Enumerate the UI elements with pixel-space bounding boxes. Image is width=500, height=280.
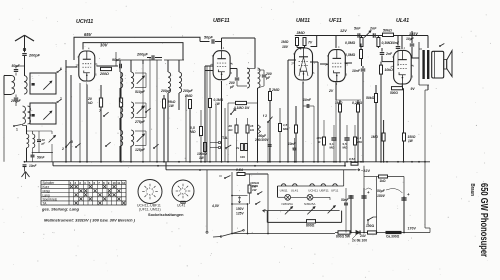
- svg-text:10: 10: [112, 181, 116, 185]
- svg-text:1: 1: [16, 128, 18, 132]
- svg-text:250/300V: 250/300V: [255, 138, 270, 142]
- svg-text:4: 4: [223, 46, 225, 50]
- svg-text:100: 100: [240, 155, 245, 159]
- svg-text:µF: µF: [265, 76, 271, 80]
- svg-text:6: 6: [95, 72, 97, 76]
- svg-text:275pF: 275pF: [134, 120, 146, 124]
- svg-text:7: 7: [98, 181, 100, 185]
- svg-text:µF: µF: [41, 142, 46, 146]
- svg-text:4,5V: 4,5V: [211, 204, 220, 208]
- svg-text:8: 8: [103, 181, 105, 185]
- svg-text:50kΩ: 50kΩ: [366, 96, 375, 100]
- svg-text:UF11: UF11: [331, 189, 339, 193]
- svg-text:1MΩ: 1MΩ: [281, 40, 289, 44]
- svg-text:12: 12: [122, 181, 126, 185]
- svg-text:10nF: 10nF: [391, 41, 400, 45]
- svg-text:6: 6: [313, 71, 315, 75]
- svg-text:kΩ: kΩ: [250, 128, 255, 132]
- svg-text:MΩ: MΩ: [283, 127, 288, 131]
- svg-text:200pF: 200pF: [28, 54, 41, 58]
- svg-text:Sockelschaltungen: Sockelschaltungen: [148, 212, 184, 217]
- svg-text:MΩ: MΩ: [190, 130, 196, 134]
- svg-text:50nF: 50nF: [341, 198, 349, 202]
- svg-text:−22V: −22V: [361, 169, 370, 173]
- svg-text:+: +: [407, 192, 410, 197]
- svg-text:UM11: UM11: [280, 189, 288, 193]
- svg-text:3: 3: [79, 181, 81, 185]
- svg-text:7: 7: [60, 97, 62, 101]
- svg-text:4: 4: [84, 181, 86, 185]
- svg-text:6: 6: [346, 73, 348, 77]
- svg-text:150V: 150V: [377, 194, 386, 198]
- svg-text:50µF: 50µF: [377, 189, 386, 193]
- svg-text:50pF: 50pF: [204, 36, 214, 40]
- svg-text:f 2: f 2: [263, 114, 267, 118]
- svg-text:Ca.390Ω: Ca.390Ω: [386, 235, 400, 239]
- svg-text:9: 9: [108, 181, 110, 185]
- svg-text:10nF: 10nF: [352, 69, 361, 73]
- svg-text:Nr8025A: Nr8025A: [282, 202, 293, 206]
- svg-text:0,1MΩ 1W: 0,1MΩ 1W: [234, 106, 250, 110]
- svg-text:10nF: 10nF: [288, 142, 296, 146]
- svg-text:2MΩ: 2MΩ: [184, 94, 193, 98]
- svg-text:2x 0E 100: 2x 0E 100: [352, 239, 367, 243]
- svg-text:2V: 2V: [328, 89, 334, 93]
- svg-text:UL41: UL41: [396, 18, 409, 24]
- svg-text:2MΩ: 2MΩ: [271, 88, 280, 92]
- svg-text:Nr8025A: Nr8025A: [304, 202, 315, 206]
- svg-text:UCH11: UCH11: [308, 189, 318, 193]
- svg-text:4: 4: [338, 45, 340, 49]
- svg-text:125pF: 125pF: [135, 148, 146, 152]
- svg-text:5: 5: [231, 62, 233, 66]
- svg-text:800Ω 5W: 800Ω 5W: [336, 235, 351, 239]
- svg-text:500Ω: 500Ω: [390, 91, 398, 95]
- svg-text:50nF: 50nF: [37, 156, 45, 160]
- svg-text:4: 4: [141, 105, 143, 109]
- svg-text:0,5MΩ: 0,5MΩ: [345, 53, 356, 57]
- svg-text:Meßinstrument: 333Ω/V ( 300 bz: Meßinstrument: 333Ω/V ( 300 bzw. 30V Ber…: [44, 218, 136, 223]
- svg-text:155V: 155V: [409, 32, 418, 36]
- svg-text:12V: 12V: [340, 29, 347, 33]
- svg-text:11: 11: [117, 181, 120, 185]
- svg-text:kΩ: kΩ: [88, 101, 93, 105]
- svg-text:10nF: 10nF: [29, 164, 37, 168]
- svg-text:10nF: 10nF: [303, 98, 312, 102]
- svg-text:2nF: 2nF: [369, 27, 377, 31]
- svg-text:24V: 24V: [360, 234, 367, 238]
- svg-text:50kΩ: 50kΩ: [383, 29, 392, 33]
- svg-text:800Ω: 800Ω: [306, 223, 315, 227]
- svg-text:1W: 1W: [169, 104, 175, 108]
- svg-text:4: 4: [88, 47, 90, 51]
- svg-text:UL41: UL41: [177, 204, 185, 208]
- svg-text:200µF: 200µF: [160, 89, 172, 93]
- svg-text:Braun: Braun: [469, 184, 475, 197]
- svg-text:3MΩ: 3MΩ: [297, 31, 305, 35]
- svg-text:UBF11: UBF11: [213, 18, 230, 24]
- svg-text:7V: 7V: [308, 41, 313, 45]
- svg-text:2x: 2x: [236, 146, 240, 150]
- svg-text:1kΩ: 1kΩ: [380, 179, 387, 183]
- svg-text:1MΩ: 1MΩ: [371, 135, 378, 139]
- svg-text:6: 6: [231, 71, 233, 75]
- svg-text:170V: 170V: [408, 227, 417, 231]
- svg-text:6: 6: [412, 75, 414, 79]
- svg-text:1W: 1W: [199, 156, 205, 160]
- svg-text:100Ω: 100Ω: [366, 224, 375, 228]
- svg-text:UF11: UF11: [329, 18, 342, 24]
- svg-text:2: 2: [62, 147, 64, 151]
- svg-text:Ω: Ω: [317, 140, 321, 144]
- svg-text:150V: 150V: [236, 207, 245, 211]
- svg-text:UL41: UL41: [291, 189, 299, 193]
- svg-text:2: 2: [74, 181, 76, 185]
- svg-text:125V: 125V: [236, 212, 245, 216]
- svg-text:9V: 9V: [411, 87, 416, 91]
- svg-text:5: 5: [412, 64, 414, 68]
- svg-text:+: +: [367, 190, 370, 195]
- svg-text:30V: 30V: [100, 43, 109, 48]
- svg-text:1: 1: [70, 181, 72, 185]
- svg-text:UCH11: UCH11: [76, 19, 93, 25]
- svg-text:µF: µF: [229, 85, 235, 89]
- svg-text:2: 2: [291, 62, 293, 66]
- svg-text:10µF: 10µF: [406, 37, 415, 41]
- svg-text:0,5A: 0,5A: [349, 157, 355, 161]
- svg-text:200µF: 200µF: [182, 89, 194, 93]
- svg-text:200µF: 200µF: [136, 53, 149, 57]
- svg-text:5nF: 5nF: [354, 27, 361, 31]
- svg-text:kΩ: kΩ: [229, 128, 234, 132]
- svg-text:18V: 18V: [282, 45, 289, 49]
- svg-text:4: 4: [404, 46, 406, 50]
- svg-text:650 GW Phonosuper: 650 GW Phonosuper: [478, 183, 490, 257]
- svg-text:ges. Stellung: Lang: ges. Stellung: Lang: [41, 207, 79, 212]
- svg-text:UBF11: UBF11: [319, 189, 329, 193]
- svg-text:5: 5: [314, 61, 316, 65]
- svg-text:510pF: 510pF: [135, 90, 146, 94]
- svg-text:6: 6: [60, 67, 62, 71]
- svg-text:200Ω: 200Ω: [99, 72, 109, 76]
- svg-text:0,5MΩ: 0,5MΩ: [345, 41, 356, 45]
- svg-text:6: 6: [93, 181, 95, 185]
- svg-text:UM11: UM11: [296, 18, 310, 24]
- svg-text:5: 5: [89, 181, 91, 185]
- svg-text:(UF11, UM11): (UF11, UM11): [139, 208, 161, 212]
- svg-text:7: 7: [99, 109, 101, 113]
- svg-text:0,5A: 0,5A: [236, 168, 244, 172]
